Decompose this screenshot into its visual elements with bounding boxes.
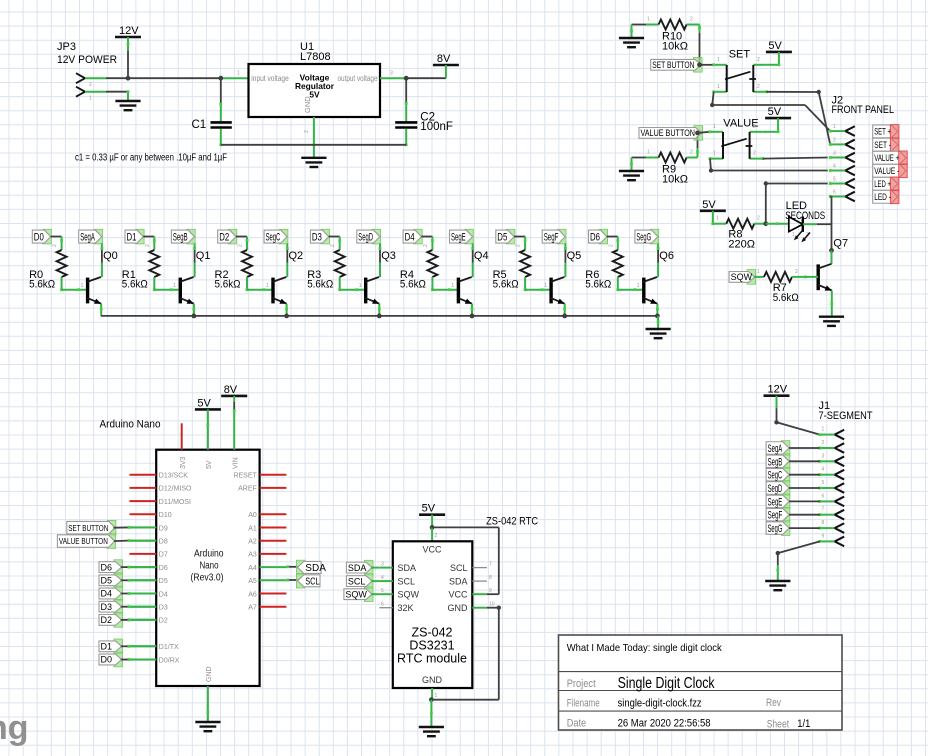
svg-text:1: 1: [266, 283, 269, 289]
transistor Q5: [551, 250, 582, 304]
svg-text:A0: A0: [248, 512, 257, 519]
wire main 12V rail: [128, 77, 221, 79]
svg-text:SegC: SegC: [266, 232, 281, 244]
svg-text:L7808: L7808: [300, 51, 331, 63]
net label SegD (J1): [766, 481, 790, 496]
svg-text:D12/MISO: D12/MISO: [159, 486, 192, 493]
transistor Q4: [458, 250, 489, 304]
ground Q7: [819, 317, 844, 326]
svg-text:2: 2: [330, 244, 336, 247]
power symbol 12V (J1): [764, 384, 790, 396]
net label D0 (Arduino): [99, 652, 123, 667]
Arduino pin D8: [130, 539, 168, 546]
wire Q4 emitter: [471, 304, 474, 316]
net label VALUE -: [873, 164, 908, 178]
svg-text:2: 2: [52, 244, 58, 247]
net label SDA (Arduino): [296, 560, 326, 574]
svg-text:SegC: SegC: [768, 470, 783, 482]
junction SET node: [697, 62, 702, 67]
svg-text:D13/SCK: D13/SCK: [159, 473, 189, 480]
wire to 8V rail: [406, 77, 446, 79]
wire regulator output: [380, 77, 404, 79]
Arduino pin D0/RX: [130, 657, 180, 664]
wire Q7 emitter to ground: [830, 291, 833, 317]
svg-text:SegG: SegG: [636, 232, 651, 244]
junction VALUE node: [695, 131, 700, 136]
net label D1: [125, 229, 144, 244]
Arduino pin D13/SCK: [130, 473, 189, 480]
Arduino pin A2: [248, 539, 286, 546]
svg-text:2: 2: [795, 269, 798, 275]
net label D0: [32, 229, 51, 244]
svg-text:GND: GND: [303, 96, 312, 113]
svg-text:D2: D2: [159, 618, 168, 625]
wire Q6 emitter: [656, 304, 659, 316]
RTC pin 9 VCC: [448, 588, 492, 599]
junction 8V node: [404, 76, 409, 81]
svg-text:1: 1: [647, 150, 650, 156]
svg-text:SegD: SegD: [768, 483, 783, 495]
resistor R3: [307, 244, 345, 290]
net label SegD: [357, 229, 381, 244]
svg-text:SegE: SegE: [451, 232, 466, 244]
transistor Q0: [87, 250, 118, 304]
wire SegD to Q3 collector: [379, 243, 382, 277]
wire R5 to Q5 base: [524, 277, 551, 291]
svg-text:2: 2: [753, 151, 756, 157]
net label SQW (R7): [729, 270, 756, 285]
svg-text:2: 2: [757, 216, 760, 222]
svg-text:1: 1: [717, 84, 720, 90]
Arduino pin D1/TX: [130, 644, 179, 651]
connector J1 pin 2: [818, 440, 844, 453]
connector J2 pin 6: [829, 190, 855, 202]
title block row1: [567, 642, 723, 654]
RTC pin 7 SCL: [450, 562, 492, 573]
wire D4 label: [121, 592, 156, 595]
svg-text:D0: D0: [101, 655, 113, 665]
svg-text:2: 2: [145, 244, 151, 247]
wire RTC VCC stem: [432, 527, 437, 541]
Arduino pin D7: [130, 552, 168, 559]
svg-text:D10: D10: [159, 512, 172, 519]
wire SegA to J1 pin2: [789, 447, 820, 449]
svg-text:5V: 5V: [206, 460, 213, 469]
svg-text:2: 2: [423, 244, 429, 247]
svg-text:SQW: SQW: [345, 589, 367, 599]
svg-text:1: 1: [435, 693, 438, 699]
connector J1 pin 6: [818, 493, 844, 506]
junction C1 top: [218, 76, 223, 81]
net label SegG (J1): [766, 521, 790, 536]
net label D1 (Arduino): [99, 639, 123, 654]
svg-text:1: 1: [237, 71, 240, 77]
svg-text:5.6kΩ: 5.6kΩ: [307, 278, 333, 290]
svg-text:1: 1: [81, 283, 84, 289]
ground R9: [619, 158, 644, 181]
wire R3 to Q3 base: [338, 277, 365, 291]
net label SET +: [873, 125, 899, 139]
svg-text:2: 2: [757, 84, 760, 90]
svg-text:Arduino Nano: Arduino Nano: [100, 419, 161, 431]
svg-text:D0: D0: [34, 232, 44, 244]
wire J1 pin9 to ground: [776, 541, 820, 581]
connector J1 label: [819, 400, 873, 422]
net label D2 (Arduino): [99, 613, 123, 628]
wire D0 to R0: [51, 237, 63, 251]
net label VALUE +: [873, 151, 908, 165]
IC A1 Arduino Nano box: [156, 450, 259, 686]
connector J2 pin 3: [829, 151, 855, 163]
Arduino pin A7: [248, 605, 286, 612]
title block frame: [559, 635, 843, 730]
wire 5V to VALUE switch: [763, 118, 780, 133]
svg-text:SCL: SCL: [305, 576, 320, 587]
svg-text:(Rev3.0): (Rev3.0): [191, 573, 224, 584]
svg-text:JP3: JP3: [57, 41, 76, 53]
svg-text:6: 6: [822, 493, 825, 499]
svg-text:input voltage: input voltage: [251, 74, 289, 83]
svg-text:5.6kΩ: 5.6kΩ: [400, 278, 426, 290]
net label SegC (J1): [766, 467, 790, 482]
svg-text:D5: D5: [497, 232, 507, 244]
svg-text:VCC: VCC: [422, 545, 442, 555]
svg-text:12V POWER: 12V POWER: [57, 54, 117, 66]
svg-text:SCL: SCL: [398, 576, 416, 586]
pin 3V3 unconnected stub: [181, 423, 183, 449]
power symbol 5V (Arduino): [195, 397, 221, 409]
svg-text:D11/MOSI: D11/MOSI: [159, 499, 191, 506]
svg-text:SegE: SegE: [768, 496, 783, 508]
Arduino pin AREF: [238, 486, 286, 493]
Arduino pin A3: [248, 552, 286, 559]
svg-text:1: 1: [359, 283, 362, 289]
svg-text:SECONDS: SECONDS: [785, 210, 825, 222]
Arduino Nano title: [100, 419, 161, 431]
svg-text:SegF: SegF: [768, 510, 783, 522]
power symbol 8V: [433, 53, 459, 78]
svg-text:output voltage: output voltage: [338, 74, 378, 83]
ground emitter bus: [646, 316, 671, 338]
svg-text:SegA: SegA: [80, 232, 95, 244]
ground Arduino: [195, 722, 220, 731]
wire D5 label: [121, 579, 156, 582]
svg-text:SegD: SegD: [358, 232, 373, 244]
svg-text:7-SEGMENT: 7-SEGMENT: [819, 410, 873, 422]
wire 8V to Arduino VIN: [233, 396, 236, 450]
svg-text:VALUE BUTTON: VALUE BUTTON: [59, 536, 108, 546]
svg-text:10kΩ: 10kΩ: [662, 41, 688, 53]
net label D6: [589, 229, 608, 244]
net label D3: [310, 229, 329, 244]
wire SegE to J1 pin6: [789, 500, 820, 502]
LED SECONDS: [766, 200, 825, 242]
net label D4 (Arduino): [99, 586, 123, 601]
net label SegA (J1): [766, 441, 790, 456]
ground regulator: [301, 158, 326, 167]
svg-text:Nano: Nano: [200, 561, 219, 572]
wire SegF to Q5 collector: [564, 243, 567, 277]
wire SDA label to pin: [371, 567, 379, 569]
wire D0 label: [121, 658, 156, 661]
svg-text:D0/RX: D0/RX: [159, 657, 180, 664]
svg-text:A2: A2: [248, 539, 257, 546]
svg-text:1: 1: [713, 151, 716, 157]
svg-text:8V: 8V: [437, 53, 451, 65]
wire R2 to Q2 base: [246, 277, 273, 291]
net label SegF (J1): [766, 507, 790, 522]
wire R0 to Q0 base: [60, 277, 87, 291]
resistor R8: [726, 216, 763, 251]
wire SQW label to pin: [371, 593, 379, 595]
svg-text:7: 7: [822, 507, 825, 513]
connector J1 pin 9: [818, 533, 844, 546]
svg-text:D4: D4: [159, 591, 168, 598]
wire VALUE+ to J2 pin3: [763, 158, 828, 159]
connector J2 pin 2: [829, 137, 855, 149]
junction RTC GND: [429, 697, 434, 702]
wire Q5 emitter: [563, 304, 566, 316]
svg-text:Q1: Q1: [196, 250, 211, 262]
wire SET BUTTON to D9: [113, 526, 156, 529]
wire SET node to switch: [700, 64, 714, 66]
wire SegD to J1 pin5: [789, 487, 820, 489]
ZS-042 RTC label: [486, 515, 538, 527]
svg-text:D8: D8: [159, 539, 168, 546]
connector J1 pin 7: [818, 507, 844, 520]
svg-text:3: 3: [381, 562, 384, 568]
svg-text:D3: D3: [101, 602, 113, 612]
svg-text:SET +: SET +: [874, 127, 891, 137]
svg-text:Sheet: Sheet: [767, 719, 789, 731]
net label SQW (RTC): [344, 587, 373, 602]
wire SegG to Q6 collector: [657, 243, 660, 277]
Arduino pin D3: [130, 605, 168, 612]
wire D2 label: [121, 619, 156, 622]
svg-text:2: 2: [757, 57, 760, 63]
resistor R6: [585, 244, 623, 290]
net label SegG: [635, 229, 659, 244]
wire SegB to J1 pin3: [789, 460, 820, 462]
wire A4 to SDA label: [286, 565, 300, 568]
connector J1 pin 3: [818, 453, 844, 466]
svg-text:SET: SET: [729, 49, 751, 61]
Arduino pin A5: [248, 578, 286, 585]
wire RTC GND to ground: [430, 700, 433, 727]
svg-text:SDA: SDA: [305, 563, 326, 574]
power symbol 5V (VALUE): [765, 106, 791, 118]
wire RTC GND stem: [432, 688, 437, 700]
power symbol 12V (input): [115, 25, 141, 37]
wire R7 to Q7 base: [805, 276, 818, 278]
svg-text:D1/TX: D1/TX: [159, 644, 179, 651]
junction emitter Q4: [470, 314, 475, 319]
svg-text:D2: D2: [219, 232, 229, 244]
wire 12V to J1 pin1: [774, 396, 820, 435]
resistor R1: [122, 244, 160, 290]
svg-text:8: 8: [822, 520, 825, 526]
svg-text:C1: C1: [192, 119, 207, 131]
wire SET+ to J2 pin1: [710, 92, 830, 131]
svg-text:SQW: SQW: [731, 272, 753, 282]
net label VALUE BUTTON (Arduino): [57, 534, 115, 549]
transistor Q7: [818, 238, 848, 291]
wire D6 label: [121, 566, 156, 569]
svg-text:SQW: SQW: [398, 589, 420, 599]
resistor R9: [632, 150, 698, 186]
wire emitter bus: [101, 315, 658, 317]
svg-text:D7: D7: [159, 552, 168, 559]
net label SCL (RTC): [346, 574, 373, 589]
svg-text:SegG: SegG: [768, 523, 783, 535]
Arduino pin RESET: [233, 473, 286, 480]
watermark fritzing: [0, 709, 29, 747]
wire SegB to Q1 collector: [193, 243, 196, 277]
net label SegF: [542, 229, 566, 244]
svg-text:What I Made Today: single digi: What I Made Today: single digit clock: [567, 642, 723, 654]
Arduino pin A1: [248, 525, 286, 532]
svg-text:FRONT PANEL: FRONT PANEL: [832, 104, 895, 116]
svg-text:1: 1: [89, 96, 92, 102]
svg-text:Date: Date: [567, 718, 587, 730]
Arduino pin D12/MISO: [130, 486, 193, 493]
svg-text:1: 1: [647, 17, 650, 23]
capacitor C1: [192, 78, 232, 146]
svg-text:DS3231: DS3231: [409, 639, 454, 653]
svg-text:2: 2: [690, 150, 693, 156]
wire Q2 emitter: [285, 304, 288, 316]
wire SegA to Q0 collector: [101, 243, 104, 277]
svg-text:D9: D9: [159, 525, 168, 532]
svg-text:4: 4: [833, 164, 836, 170]
connector J1 pin 4: [818, 467, 844, 480]
svg-text:Q2: Q2: [289, 250, 304, 262]
wire SegG to J1 pin8: [789, 527, 820, 529]
svg-text:VIN: VIN: [232, 457, 239, 469]
wire D1 label: [121, 645, 156, 648]
net label SegE (J1): [766, 494, 790, 509]
svg-text:D1: D1: [127, 232, 137, 244]
svg-text:Q3: Q3: [381, 250, 396, 262]
net label D3 (Arduino): [99, 599, 123, 614]
wire 5V to Arduino: [207, 409, 210, 449]
wire D1 to R1: [143, 237, 155, 251]
Arduino pin D5: [130, 578, 168, 585]
svg-text:3V3: 3V3: [180, 456, 187, 469]
svg-text:1: 1: [833, 124, 836, 130]
junction RTC VCC node: [430, 525, 435, 530]
wire GND bottom run: [221, 144, 406, 146]
svg-text:D3: D3: [312, 232, 322, 244]
resistor R7: [764, 269, 806, 304]
switch SET pushbutton: [712, 49, 767, 94]
op-amp U1 voltage regulator box: [249, 41, 394, 117]
svg-text:SET -: SET -: [874, 140, 891, 150]
net label SET BUTTON: [651, 58, 702, 73]
wire VALUE node to switch: [698, 132, 710, 133]
wire 5V to R8: [711, 211, 726, 225]
net label SegB: [171, 229, 195, 244]
svg-text:ng: ng: [0, 709, 29, 747]
svg-text:5.6kΩ: 5.6kΩ: [773, 292, 799, 304]
Arduino pin D10: [130, 512, 172, 519]
resistor R5: [493, 244, 530, 290]
wire SET- to J2 pin2: [766, 90, 830, 145]
Arduino pin A6: [248, 591, 286, 598]
svg-text:1: 1: [757, 269, 760, 275]
wire D3 label: [121, 605, 156, 608]
svg-text:3: 3: [822, 453, 825, 459]
svg-text:RESET: RESET: [233, 473, 257, 480]
svg-text:5V: 5V: [768, 40, 782, 52]
wire SCL label to pin: [371, 580, 379, 582]
svg-text:D5: D5: [101, 576, 113, 586]
wire SegC to Q2 collector: [286, 243, 289, 277]
svg-text:SDA: SDA: [348, 563, 367, 573]
resistor R4: [400, 244, 438, 290]
RTC pin 6 32K: [379, 602, 413, 613]
svg-text:8: 8: [489, 575, 492, 581]
wire VALUE- to J2 pin4: [709, 159, 828, 173]
junction R8/LED node: [763, 221, 768, 226]
wire VCC net to pin9: [432, 527, 499, 594]
junction emitter Q1: [192, 314, 197, 319]
svg-text:1: 1: [173, 283, 176, 289]
svg-text:2: 2: [833, 137, 836, 143]
svg-text:A7: A7: [248, 605, 257, 612]
wire SegE to Q4 collector: [471, 243, 474, 277]
svg-text:4: 4: [381, 575, 384, 581]
svg-text:VALUE -: VALUE -: [874, 166, 899, 176]
junction emitter Q6: [655, 314, 660, 319]
wire D6 to R6: [607, 237, 619, 251]
svg-text:3: 3: [390, 71, 393, 77]
svg-text:D4: D4: [101, 589, 113, 599]
svg-text:5V: 5V: [422, 503, 436, 515]
net label SET -: [873, 138, 899, 152]
svg-text:5V: 5V: [768, 106, 782, 118]
svg-text:8V: 8V: [224, 384, 238, 396]
connector J2 label: [832, 95, 895, 117]
ground R10: [619, 25, 644, 48]
svg-text:2: 2: [89, 82, 92, 88]
svg-text:5: 5: [381, 588, 384, 594]
svg-text:1: 1: [822, 427, 825, 433]
wire A5 to SCL label: [286, 579, 300, 582]
wire JP3 pin1 to ground: [106, 90, 129, 101]
svg-text:D6: D6: [159, 565, 168, 572]
svg-text:D3: D3: [159, 605, 168, 612]
switch VALUE pushbutton: [708, 118, 764, 160]
svg-text:Q6: Q6: [659, 250, 674, 262]
RTC pin 5 SQW: [379, 588, 419, 599]
power symbol 5V (LED): [700, 199, 726, 211]
junction Q7 collector: [829, 248, 834, 253]
connector J2 pin 4: [829, 164, 855, 176]
RTC pin 3 SDA: [379, 562, 416, 573]
transistor Q1: [180, 250, 211, 304]
RTC pin 4 SCL: [379, 575, 415, 586]
Arduino pin A4: [248, 565, 286, 572]
Arduino pin D6: [130, 565, 168, 572]
junction emitter Q5: [562, 314, 567, 319]
svg-text:LED -: LED -: [874, 192, 891, 202]
connector J2 pin 5: [829, 177, 855, 189]
Arduino pin D11/MOSI: [130, 499, 192, 506]
svg-text:LED +: LED +: [874, 179, 891, 189]
net label VALUE BUTTON: [639, 126, 703, 141]
svg-text:5V: 5V: [197, 397, 211, 409]
